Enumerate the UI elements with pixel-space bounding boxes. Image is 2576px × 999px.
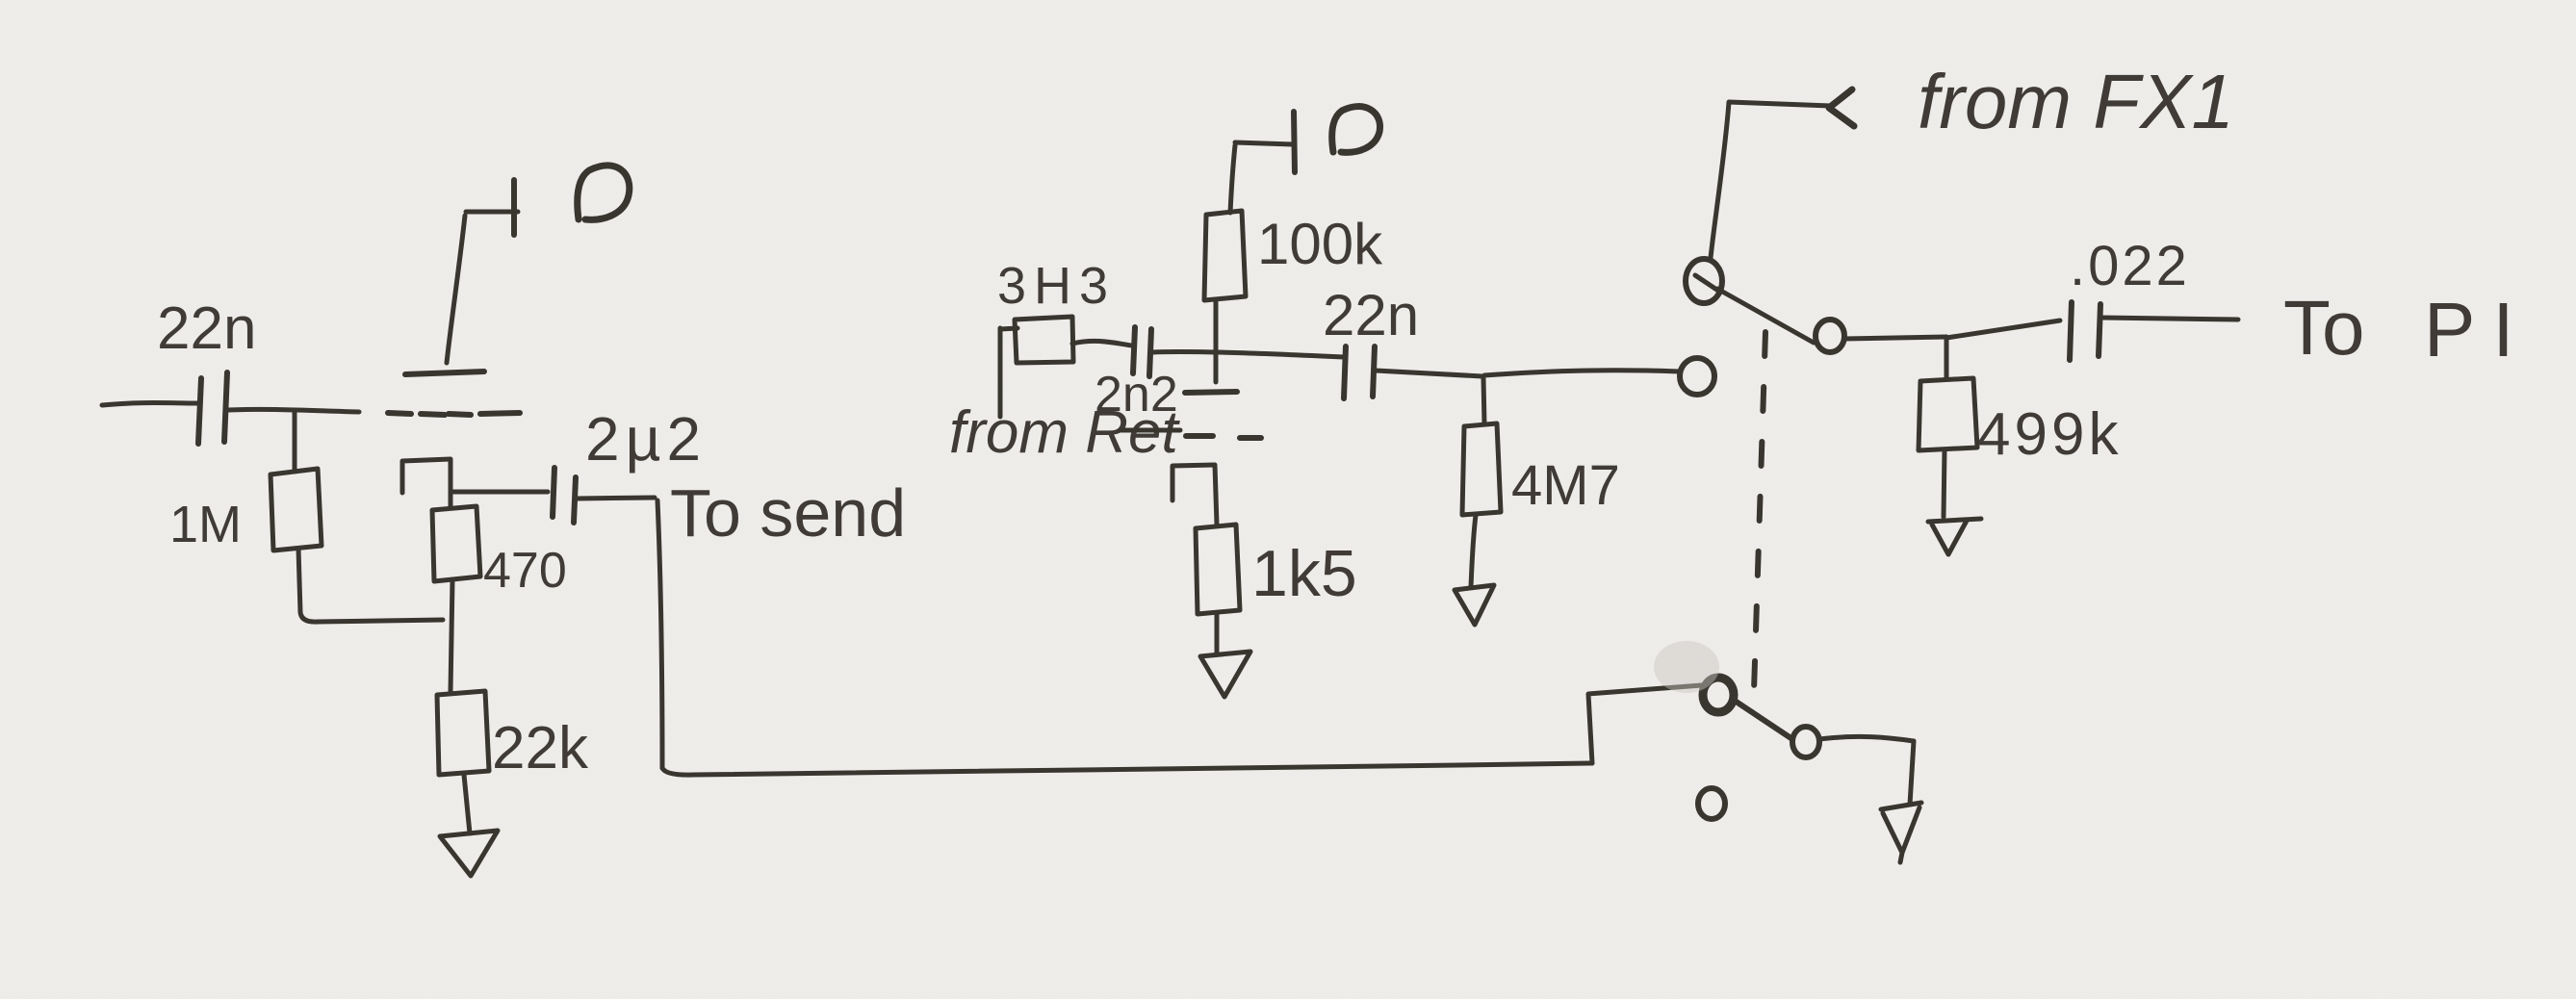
resistor R2 470	[432, 506, 480, 581]
capacitor C5 .022	[2070, 302, 2072, 360]
transistor Q2 source hook	[1172, 465, 1217, 525]
wire L1 to C3	[1072, 341, 1132, 346]
resistor R4 lead bottom	[1214, 299, 1219, 382]
wire source tap to C2	[451, 490, 548, 495]
node D label (left)	[578, 166, 630, 219]
resistor R4 100k lead top	[1230, 145, 1235, 213]
ground below R7	[1928, 519, 1981, 554]
transistor Q2 drain bar	[1185, 392, 1237, 393]
transistor Q1 drain bar	[405, 371, 484, 374]
svg-text:1k5: 1k5	[1251, 537, 1357, 610]
ground S2	[1881, 803, 1921, 862]
transistor Q2 gate dashed	[1186, 436, 1261, 438]
wire junction to switch	[1484, 371, 1679, 375]
svg-text:3H3: 3H3	[997, 257, 1116, 315]
ground below R3	[440, 831, 498, 876]
switch S2 contact right	[1792, 727, 1819, 757]
transistor Q1 source hook	[402, 459, 451, 507]
switch S2 pole contact	[1703, 678, 1734, 712]
svg-text:470: 470	[483, 543, 567, 599]
wire To send down	[657, 500, 662, 768]
wire from C1 to gate node	[228, 409, 359, 412]
capacitor C3 2n2	[1133, 327, 1135, 373]
node D terminal (middle)	[1235, 142, 1293, 144]
capacitor C1 22n (left)	[198, 378, 201, 444]
wire input left	[102, 403, 198, 406]
ground below R5	[1200, 652, 1250, 697]
svg-text:4M7: 4M7	[1511, 454, 1620, 517]
svg-text:499k: 499k	[1977, 401, 2122, 468]
switch S1 contact bottom	[1680, 358, 1714, 395]
svg-text:To send: To send	[670, 475, 906, 551]
resistor R6 4M7	[1462, 423, 1501, 515]
node D label (middle)	[1332, 107, 1380, 153]
resistor R7 499k lead	[1945, 338, 1949, 379]
wire R6 to ground	[1471, 515, 1476, 587]
svg-text:from FX1: from FX1	[1918, 59, 2234, 144]
inductor L1 3H3	[998, 328, 1003, 417]
transistor Q1 gate dashed	[388, 413, 520, 415]
node D terminal bar (left)	[511, 180, 517, 235]
wire pole to output	[1844, 337, 1946, 339]
resistor R1 1M	[270, 469, 322, 551]
svg-text:.022: .022	[2070, 235, 2190, 297]
wire C3 to C4	[1152, 351, 1344, 357]
wire junction to R1	[293, 412, 297, 472]
wire R7 to ground	[1944, 450, 1945, 517]
svg-text:100k: 100k	[1257, 212, 1383, 276]
dashed mechanical link	[1754, 332, 1765, 691]
resistor R5 1k5	[1196, 525, 1240, 614]
svg-text:22n: 22n	[157, 295, 256, 362]
transistor Q1 drain lead to D	[447, 216, 465, 363]
resistor R7 499k	[1919, 378, 1977, 450]
svg-text:PI: PI	[2424, 287, 2532, 372]
resistor R6 4M7 lead	[1483, 378, 1484, 424]
switch S1 pole contact	[1816, 320, 1844, 352]
svg-text:22n: 22n	[1323, 283, 1419, 347]
smudge	[1654, 641, 1719, 693]
svg-text:2µ2: 2µ2	[585, 404, 707, 474]
resistor R3 22k	[437, 691, 489, 775]
capacitor C2 2u2	[553, 468, 554, 517]
wire bottom to switch S2	[1588, 685, 1702, 763]
switch S1 contact top	[1686, 259, 1722, 303]
svg-text:To: To	[2283, 285, 2365, 371]
wire C4 to junction	[1376, 371, 1482, 376]
svg-text:22k: 22k	[492, 715, 589, 781]
resistor R4 100k	[1204, 211, 1246, 300]
capacitor C4 22n (middle)	[1344, 346, 1346, 398]
wire to C5	[1946, 320, 2060, 338]
switch S1 lever	[1717, 289, 1814, 343]
ground below R6	[1455, 585, 1494, 625]
svg-text:1M: 1M	[169, 496, 242, 553]
wire from FX1 with arrowhead	[1829, 90, 1854, 126]
wire long bottom	[662, 763, 1592, 775]
switch S2 unused contact	[1698, 788, 1725, 819]
wire S2 to ground	[1819, 736, 1914, 805]
switch S2 lever	[1735, 701, 1792, 739]
wire from Ret dash	[1121, 428, 1180, 433]
